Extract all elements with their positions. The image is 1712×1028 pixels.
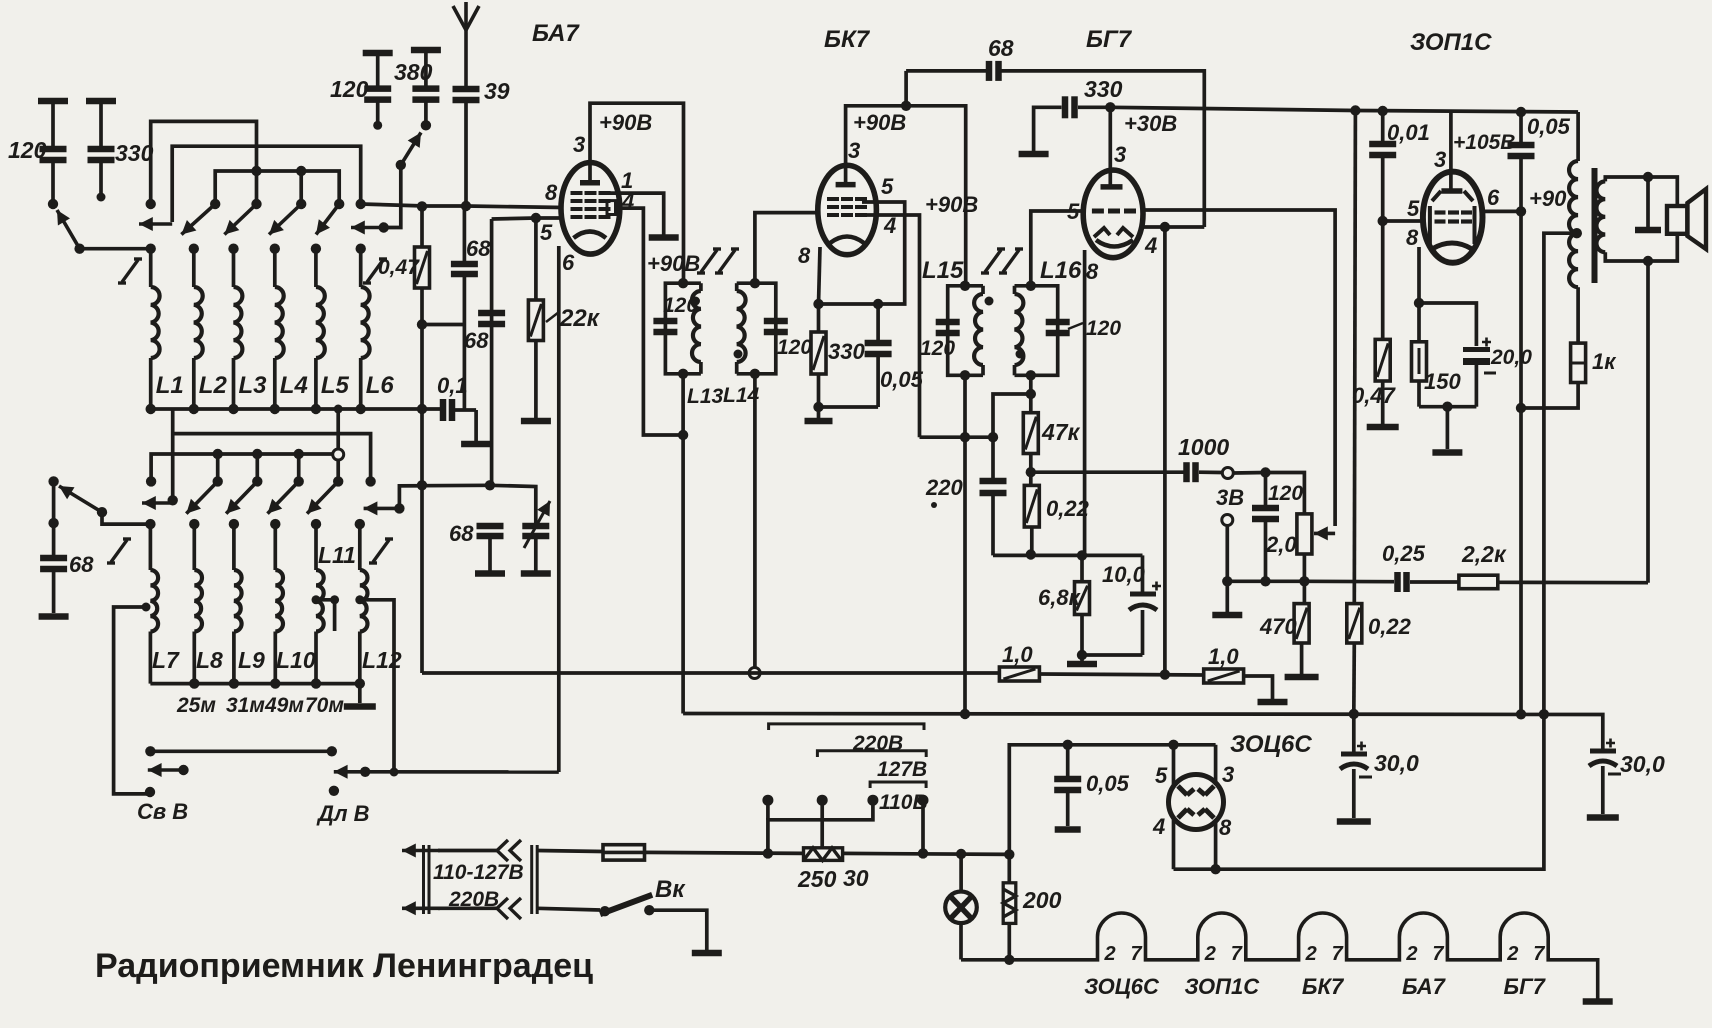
inductor L14: [737, 291, 746, 362]
wire 30.0a bottom: [1352, 769, 1356, 818]
svg-text:+90В: +90В: [853, 110, 906, 135]
node cathode gnd: [1077, 650, 1087, 660]
wire AGC line: [422, 671, 999, 675]
wire 68d stem: [52, 523, 56, 556]
node L11 tap b: [330, 595, 339, 604]
capacitor 68 (feedback): [989, 61, 999, 81]
svg-text:8: 8: [798, 243, 811, 268]
wire ground stem: [817, 407, 821, 418]
svg-text:Радиоприемник Ленинградец: Радиоприемник Ленинградец: [95, 947, 593, 985]
wire 220 top stem: [991, 437, 995, 479]
svg-text:Дл В: Дл В: [316, 801, 370, 826]
node bus drop: [334, 405, 343, 414]
ground: [1285, 674, 1319, 681]
node top line junction 2: [1378, 106, 1388, 116]
bracket 127В: [817, 751, 926, 757]
terminal 3В lower: [1222, 515, 1233, 526]
inductor L2: [194, 287, 203, 358]
mains lead lower: [402, 901, 440, 915]
svg-text:БА7: БА7: [532, 20, 580, 47]
svg-text:22к: 22к: [559, 305, 601, 332]
wire L3 bottom stem: [232, 358, 236, 409]
ground: [461, 441, 491, 448]
chassis bar: [1337, 818, 1371, 825]
resistor 22к: [528, 300, 543, 341]
node rect out junction: [1210, 864, 1220, 874]
svg-text:70м: 70м: [305, 694, 344, 717]
inductor L12: [360, 570, 368, 632]
node 200 tap: [1004, 849, 1014, 859]
capacitor 120 (L15): [936, 322, 960, 333]
inductor L8: [194, 570, 202, 632]
terminal 3В upper: [1222, 468, 1233, 479]
resistor 6,8к: [1075, 582, 1090, 615]
node L16 top: [1026, 281, 1036, 291]
ground: [1583, 998, 1613, 1005]
wire L15 stub a: [981, 286, 985, 294]
wire 330 bottom: [817, 374, 821, 407]
svg-text:6: 6: [562, 250, 575, 275]
wire gnd stem: [1446, 407, 1450, 449]
wire 0.47 bottom run: [420, 288, 424, 673]
capacitor 0,1: [443, 399, 452, 421]
inductor L13: [692, 291, 701, 362]
wire grid link: [1383, 219, 1423, 223]
wire 200 bottom: [1007, 923, 1011, 959]
wire grid out BG7: [1142, 210, 1335, 526]
wire cap330 top stem: [99, 101, 103, 147]
svg-text:ЗОЦ6С: ЗОЦ6С: [1230, 731, 1312, 758]
bracket 110В: [870, 782, 926, 788]
bracket 220В: [769, 724, 924, 730]
node switch contact (bank2): [213, 476, 223, 486]
capacitor 330 top terminal: [86, 98, 116, 105]
wire L13 coil stubs: [699, 283, 703, 291]
svg-text:7: 7: [1432, 943, 1444, 965]
wire lamp stem: [959, 854, 963, 891]
wire primary top stem: [1576, 112, 1580, 161]
wire switch lead: [537, 908, 600, 910]
node pot bottom: [1299, 576, 1309, 586]
node 0.47/68 junction: [417, 319, 427, 329]
wire L1 bottom stem: [149, 358, 153, 409]
wire 68a bottom: [463, 276, 467, 410]
node L4 top: [270, 244, 280, 254]
svg-text:4: 4: [1144, 233, 1157, 258]
node L8 top: [189, 519, 199, 529]
node top line junction: [1350, 105, 1360, 115]
node Дл top: [327, 746, 337, 756]
node rectifier pin5 feed: [1168, 740, 1178, 750]
wire pot top stem: [1266, 473, 1305, 514]
wire cap380 stem: [424, 50, 428, 87]
switch wiper arrow b2: [186, 481, 217, 513]
node bank2 bus: [311, 678, 321, 688]
svg-text:БА7: БА7: [1402, 974, 1447, 999]
wire L6 link lower: [336, 460, 340, 482]
ground: [521, 418, 551, 425]
adjustable core mark L6: [363, 259, 387, 283]
node B+ rail junction: [1349, 709, 1359, 719]
wire pole to L7: [102, 512, 150, 524]
svg-text:L1: L1: [156, 372, 184, 399]
svg-text:ЗОЦ6С: ЗОЦ6С: [1084, 974, 1160, 999]
node B+ rail junction: [1516, 709, 1526, 719]
wire +90V bracket BA7: [590, 103, 684, 283]
wire L6 bottom stem: [359, 358, 363, 409]
wire 22k bottom: [534, 341, 538, 419]
wire chassis stem: [1646, 177, 1650, 227]
switch Вк lever: [600, 895, 652, 914]
wire feedback up: [904, 71, 908, 106]
grid (dashed) BG7: [1092, 209, 1136, 214]
capacitor 120 (left): [40, 149, 67, 160]
wire primary bottom stem: [1576, 287, 1580, 343]
wire pin4 to L13 bottom: [616, 208, 684, 435]
wire mains upper: [438, 849, 497, 853]
wire rc link: [819, 405, 879, 409]
wire L7 top stem: [149, 524, 153, 570]
screen marks 30P1S: [1432, 191, 1473, 201]
capacitor 330: [88, 149, 115, 160]
node grid junction: [1378, 216, 1388, 226]
wire tap to B+ rail: [1544, 233, 1577, 714]
wire 0.05 top stem: [876, 304, 880, 341]
node cathode gnd: [1442, 402, 1452, 412]
wire bank1 ground bus: [151, 407, 442, 411]
terminal (AGC line): [749, 668, 760, 679]
rectifier anode marks: [1178, 786, 1214, 818]
svg-text:2: 2: [1305, 943, 1317, 965]
wire tap1 stem: [766, 800, 770, 820]
node L13 top: [678, 278, 688, 288]
rectifier ЗОЦ6С envelope: [1169, 775, 1224, 830]
wire cap120 bottom stem: [51, 162, 55, 204]
wire rectifier output: [1174, 714, 1544, 869]
wire gnd link: [1225, 581, 1229, 612]
node Св bottom: [145, 787, 155, 797]
ground: [649, 234, 679, 241]
svg-text:200: 200: [1022, 887, 1062, 913]
resistor 1,0: [999, 667, 1039, 681]
node cap120b bottom: [373, 121, 382, 130]
svg-text:L12: L12: [362, 647, 402, 673]
svg-text:5: 5: [1155, 763, 1168, 788]
node bank2 bus: [189, 678, 199, 688]
node pin4 junction: [1160, 222, 1170, 232]
wire 0.05c stem: [1066, 745, 1070, 777]
wire L10 top stem: [273, 524, 277, 570]
node L13 bottom: [678, 369, 688, 379]
capacitor 0,05 (screen): [1508, 145, 1535, 156]
svg-text:L9: L9: [238, 647, 265, 673]
resistor 0,22: [1024, 485, 1039, 527]
wire to antenna cap bottom: [422, 323, 464, 327]
winding start dot L15: [985, 297, 994, 306]
svg-text:110-127В: 110-127В: [433, 861, 524, 884]
node L1 top: [146, 244, 156, 254]
inductor L15: [974, 294, 983, 365]
node agc tap junction: [417, 480, 427, 490]
wire L15 frame: [948, 286, 983, 376]
svg-text:0,47: 0,47: [378, 256, 420, 279]
capacitor 30,0 electrolytic 2: [1589, 739, 1621, 775]
node switch contact (bank2): [333, 476, 343, 486]
resistor 470: [1294, 604, 1309, 643]
wire 220 bottom stem: [991, 495, 995, 555]
svg-text:20,0: 20,0: [1490, 346, 1532, 369]
wire bracket C of band switch: [215, 171, 339, 202]
wire HV feed: [1009, 745, 1215, 855]
capacitor 120 (L14): [764, 321, 788, 332]
svg-text:БК7: БК7: [824, 26, 871, 53]
svg-text:2: 2: [1204, 943, 1216, 965]
node cathode BG7 bus: [1077, 550, 1087, 560]
capacitor open end: [475, 570, 505, 577]
wire pin5 link: [492, 218, 562, 219]
svg-text:0,01: 0,01: [1387, 120, 1430, 145]
wire 0.47 vertical run: [420, 206, 424, 247]
anode plate BK7: [836, 182, 856, 188]
wire pin3 stem: [1214, 745, 1218, 785]
resistor 1k inner mark: [1571, 362, 1586, 365]
fuse: [603, 845, 645, 860]
wire L16 grid run: [1031, 211, 1084, 286]
switch wiper arrow (right horizontal): [351, 221, 381, 235]
wire L8 top stem: [192, 524, 196, 570]
node L14 top: [750, 278, 760, 288]
node B+ rail junction: [960, 709, 970, 719]
node screen junction: [1516, 206, 1526, 216]
wire BG7 cathode run: [1083, 250, 1087, 555]
wire 470 bottom: [1300, 643, 1304, 674]
output transformer secondary: [1596, 181, 1605, 252]
node secondary top: [1643, 172, 1653, 182]
node grid2 junction: [531, 213, 541, 223]
wire cathode bottom link: [1082, 653, 1143, 657]
svg-text:ЗОП1С: ЗОП1С: [1184, 974, 1260, 999]
node L15 top: [960, 281, 970, 291]
wire bracket D: [171, 409, 175, 500]
svg-text:120: 120: [8, 137, 47, 163]
wire 47k top: [1029, 394, 1033, 413]
node cap330 contact: [97, 193, 106, 202]
wire anode stem: [1449, 112, 1453, 189]
anode plate BG7: [1101, 184, 1123, 190]
node switch arm lower: [396, 160, 406, 170]
svg-text:30,0: 30,0: [1620, 751, 1665, 777]
wire L14 stub b: [735, 362, 739, 374]
wire L12 bottom stem: [358, 632, 362, 684]
inductor L16: [1015, 294, 1024, 365]
svg-text:1,0: 1,0: [1208, 644, 1239, 669]
wire bracket B of band switch: [172, 146, 361, 222]
svg-text:+30В: +30В: [1124, 111, 1177, 136]
svg-text:68: 68: [466, 236, 491, 261]
wire B+ top line: [1110, 107, 1578, 112]
node 68 cap top: [48, 518, 58, 528]
node heater junction: [1004, 955, 1014, 965]
node switch contact (bank2): [252, 476, 262, 486]
wire cathode BK7: [819, 247, 821, 304]
node L5 top: [311, 244, 321, 254]
wire L4 top stem: [273, 249, 277, 287]
wire pin4 to tank: [920, 435, 994, 439]
wire 1000 to terminal: [1199, 470, 1222, 474]
wire pin5 run: [862, 202, 905, 304]
node pole pivot b2: [97, 507, 107, 517]
svg-text:49м: 49м: [264, 694, 304, 717]
switch wiper arrow (left horizontal, bank2): [142, 496, 170, 510]
node bracket crossing: [251, 166, 261, 176]
wire contact stub: [255, 171, 259, 202]
wire L16 frame: [1015, 286, 1058, 376]
node switch contact: [296, 199, 306, 209]
wire tap middle: [820, 800, 824, 848]
wire pin6 cathode run: [557, 246, 561, 772]
svg-text:8: 8: [1406, 225, 1419, 250]
potentiometer wiper arrow: [1314, 526, 1335, 540]
wire L9 top stem: [232, 524, 236, 570]
svg-text:30,0: 30,0: [1374, 750, 1419, 776]
svg-text:L16: L16: [1040, 257, 1082, 284]
node 0.05 feed: [1063, 740, 1073, 750]
resistor 47к: [1023, 413, 1038, 454]
svg-text:L13: L13: [687, 385, 724, 408]
node under 220 label: [931, 502, 937, 508]
svg-text:1к: 1к: [1592, 349, 1617, 374]
svg-text:L15: L15: [922, 257, 964, 284]
node L15 bottom: [960, 370, 970, 380]
svg-text:68: 68: [449, 521, 474, 546]
capacitor 120 (antenna) top terminal: [363, 50, 393, 57]
node cathode return: [813, 402, 823, 412]
wire pin4 link: [1142, 225, 1205, 229]
node AGC junction: [1160, 669, 1170, 679]
winding start dot L16: [1016, 350, 1025, 359]
switch wiper arrow b2: [268, 481, 299, 513]
switch wiper arrow b2: [226, 481, 257, 513]
capacitor 0,05 (rect): [1054, 779, 1081, 790]
wire L15 bottom run: [963, 375, 967, 714]
potentiometer 2,0: [1297, 514, 1312, 554]
svg-text:39: 39: [484, 78, 510, 104]
mains lead upper: [402, 844, 440, 858]
node primary tap: [1572, 228, 1582, 238]
svg-text:1000: 1000: [1178, 434, 1229, 460]
terminal (voltage tap): [867, 795, 878, 806]
svg-text:0,47: 0,47: [1352, 383, 1397, 408]
wire tone line a: [1304, 579, 1394, 583]
wire bracket E: [151, 454, 333, 481]
node pot top: [1260, 467, 1270, 477]
svg-text:Св В: Св В: [137, 799, 188, 824]
node L9 top: [229, 519, 239, 529]
node Дл bottom: [329, 786, 339, 796]
svg-text:5: 5: [881, 174, 894, 199]
wire L1 top stem: [149, 249, 153, 287]
inductor L5: [316, 287, 325, 358]
svg-text:8: 8: [545, 180, 558, 205]
capacitor 20,0 electrolytic: [1463, 338, 1496, 374]
wire L12 top stem: [358, 524, 362, 570]
capacitor 380 top terminal: [411, 47, 441, 54]
node L15 return: [960, 432, 970, 442]
wire 0.22 bottom: [1030, 527, 1034, 555]
trimmer arrow: [524, 501, 550, 548]
node L14 bottom: [750, 369, 760, 379]
svg-text:110В: 110В: [879, 791, 928, 814]
svg-text:БК7: БК7: [1302, 974, 1345, 999]
node 220 junction: [988, 432, 998, 442]
wire antenna to grid bus: [464, 102, 468, 206]
node pole arm pivot: [74, 244, 84, 254]
svg-text:2: 2: [1506, 943, 1518, 965]
ground: [1367, 424, 1399, 431]
svg-text:ЗОП1С: ЗОП1С: [1410, 29, 1492, 56]
wire L10 bottom stem: [273, 632, 277, 684]
wire L15 stub b: [981, 365, 985, 375]
wire L11 bottom stem: [314, 632, 318, 684]
svg-text:L11: L11: [318, 542, 356, 568]
inductor L10: [275, 570, 283, 632]
node L5 bottom: [311, 404, 321, 414]
switch wiper arrow: [269, 204, 301, 235]
inductor L6: [361, 287, 370, 358]
svg-text:7: 7: [1131, 943, 1143, 965]
wire L13 bottom run: [681, 374, 685, 714]
svg-text:1,0: 1,0: [1002, 642, 1033, 667]
wire cathode return: [1419, 405, 1476, 409]
anode plate BA7: [580, 180, 600, 186]
svg-text:127В: 127В: [877, 758, 927, 781]
svg-text:L7: L7: [152, 647, 180, 673]
wire padder feed: [399, 483, 490, 487]
svg-text:L5: L5: [321, 372, 350, 399]
capacitor 10,0 electrolytic: [1129, 582, 1161, 611]
node L11 top: [311, 519, 321, 529]
wire L16 stub b: [1013, 365, 1017, 375]
wire 0.47b bottom: [1381, 381, 1385, 424]
switch wiper arrow: [224, 204, 256, 235]
wire 0.01 stem: [1381, 111, 1385, 142]
wire secondary bottom: [1605, 252, 1648, 261]
wire L2 bottom stem: [192, 358, 196, 409]
heater winding chain: [961, 913, 1598, 999]
resistor 0.47: [415, 247, 430, 288]
node L7 tap: [142, 603, 151, 612]
wire grid bus: [361, 204, 563, 208]
wire bracket A of band switch: [151, 121, 257, 202]
wire cathode to Дл: [365, 770, 559, 774]
capacitor 68 (padder): [477, 526, 504, 536]
node det junction: [1026, 389, 1036, 399]
terminal (voltage tap): [817, 795, 828, 806]
svg-text:L4: L4: [280, 372, 308, 399]
antenna: [453, 2, 479, 88]
svg-text:68: 68: [69, 552, 94, 577]
node pole contact b2: [48, 476, 58, 486]
wire 10.0 top: [1141, 555, 1145, 592]
svg-text:220В: 220В: [852, 732, 903, 755]
wire cap120b bottom: [376, 102, 380, 126]
wire L8 bottom stem: [192, 632, 196, 684]
svg-text:2,2к: 2,2к: [1461, 541, 1507, 567]
svg-text:31м: 31м: [226, 694, 265, 717]
wire pin1 to ground: [607, 193, 664, 235]
adjustable core mark L12: [369, 539, 393, 563]
svg-text:150: 150: [1424, 369, 1461, 394]
